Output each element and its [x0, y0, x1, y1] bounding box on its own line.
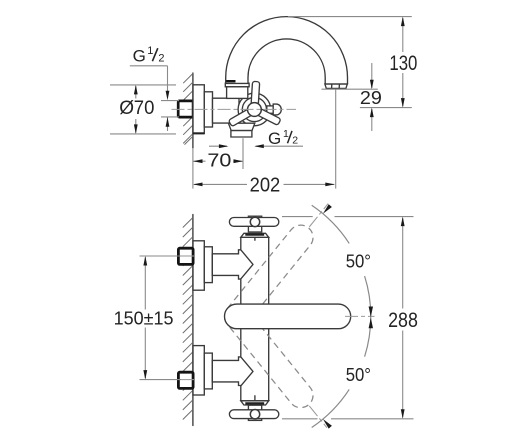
- svg-text:130: 130: [389, 51, 417, 75]
- svg-text:150±15: 150±15: [114, 309, 174, 329]
- bottom union nut: [178, 372, 193, 388]
- top handle bar: [229, 218, 278, 227]
- svg-text:288: 288: [388, 308, 418, 332]
- wall line (side view): [192, 73, 194, 148]
- aerator outlet: [325, 84, 347, 88]
- top handle center circle: [250, 217, 259, 226]
- dimension 130: [288, 16, 412, 18]
- axis of down-rotated spout: [309, 406, 327, 428]
- svg-text:2: 2: [292, 135, 298, 147]
- svg-text:70: 70: [207, 151, 231, 171]
- dimension 150±15: [140, 255, 182, 257]
- svg-text:29: 29: [360, 87, 382, 108]
- dashed spout rotated down 51deg: [220, 299, 319, 413]
- svg-text:50°: 50°: [346, 364, 371, 385]
- svg-text:G: G: [133, 46, 146, 65]
- dimension 70: [194, 160, 206, 162]
- svg-text:2: 2: [158, 52, 164, 64]
- spout base flange: [225, 83, 249, 87]
- top union step ring: [204, 247, 212, 283]
- set screw tick on spout base: [226, 80, 235, 82]
- spout arc tube: [226, 17, 348, 84]
- bottom handle skirt: [241, 401, 269, 405]
- cross handle spoke lower-left: [228, 106, 256, 126]
- wall line (front view): [192, 215, 194, 426]
- spout base neck: [227, 87, 248, 99]
- spout centerline: [345, 315, 375, 317]
- cross handle spoke lower-right: [252, 106, 281, 125]
- nipple extension lines: [161, 100, 179, 102]
- diverter knob stem: [267, 106, 274, 113]
- dimension Ø70: [110, 84, 176, 86]
- bottom union step ring: [204, 353, 212, 389]
- bottom handle bar: [229, 410, 278, 419]
- handle hub: [248, 103, 262, 117]
- spout outlet extension line: [335, 89, 337, 188]
- bottom handle center block: [248, 405, 261, 420]
- dimension 202: [194, 183, 247, 185]
- top union nut: [178, 248, 193, 264]
- top handle index tick: [254, 238, 256, 240]
- axis of up-rotated spout: [309, 204, 328, 227]
- bath spout (front view): [225, 304, 351, 329]
- bottom handle center circle: [250, 410, 259, 419]
- wall hatching (side view): [183, 74, 193, 145]
- top handle skirt: [241, 233, 269, 237]
- escutcheon step ring (side view): [204, 92, 212, 127]
- bottom outlet stub G1/2: [231, 131, 252, 137]
- top union pipe: [212, 250, 241, 279]
- bottom union escutcheon: [193, 346, 204, 395]
- top handle center block: [248, 216, 261, 232]
- nipple lower arrow: [167, 117, 169, 131]
- svg-text:202: 202: [250, 173, 281, 196]
- bottom union pipe: [212, 357, 241, 386]
- swivel arc: [312, 205, 371, 427]
- threaded inlet nipple G1/2 (side view): [178, 101, 193, 117]
- mixer body column (front view): [241, 237, 269, 400]
- wall hatching (front view): [183, 218, 193, 420]
- leaders G1/2 bottom: [209, 145, 227, 147]
- svg-text:50°: 50°: [346, 251, 371, 272]
- valve body cylinder (side view): [213, 98, 240, 123]
- svg-text:Ø: Ø: [119, 98, 134, 119]
- svg-text:1: 1: [283, 128, 289, 140]
- top union escutcheon: [193, 241, 204, 290]
- leader G1/2 top: [130, 65, 168, 67]
- dashed spout rotated up 50deg: [220, 220, 319, 334]
- centerline (side view): [172, 108, 297, 110]
- cross handle spoke up: [251, 81, 260, 110]
- wall escutcheon (side view): [193, 85, 204, 134]
- diverter knob: [273, 104, 281, 115]
- swivel arc arrowheads: [323, 204, 332, 214]
- dimension 29: [322, 88, 378, 90]
- svg-text:70: 70: [134, 98, 155, 119]
- cartridge dome circles: [238, 93, 271, 126]
- outlet stub extension line: [242, 138, 244, 169]
- svg-text:1: 1: [147, 45, 153, 57]
- bottom handle index tick: [254, 396, 256, 401]
- bottom outlet funnel: [228, 123, 254, 130]
- dimension 288: [282, 216, 313, 218]
- svg-text:G: G: [268, 129, 281, 148]
